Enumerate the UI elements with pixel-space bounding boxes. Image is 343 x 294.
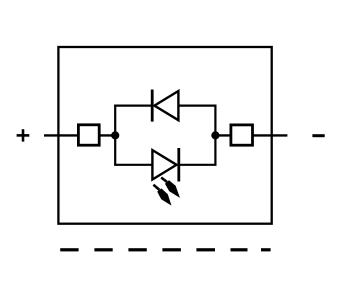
terminal - (312, 134, 324, 137)
LED emission arrow upper-right (161, 178, 180, 198)
wire branch right vertical (214, 106, 216, 165)
wire branch left vertical (114, 106, 116, 165)
module outline box (58, 47, 271, 224)
wire top branch left segment (114, 104, 152, 106)
resistor right (231, 125, 253, 145)
node left junction (111, 131, 119, 139)
wire right lead (215, 134, 287, 136)
diode top (cathode bar) (151, 90, 154, 122)
wire left lead (44, 134, 115, 136)
wire bottom branch left segment (114, 164, 152, 166)
terminal + (17, 129, 30, 141)
dashed separator line (60, 248, 270, 251)
LED bottom (cathode bar) (177, 148, 180, 182)
resistor left (78, 125, 99, 145)
wire top branch right segment (178, 104, 216, 106)
node right junction (211, 131, 219, 139)
diode top (triangle pointing left) (154, 91, 178, 120)
LED emission arrow lower-left (153, 185, 171, 206)
LED bottom (triangle pointing right) (152, 150, 176, 179)
wire bottom branch right segment (179, 164, 217, 166)
